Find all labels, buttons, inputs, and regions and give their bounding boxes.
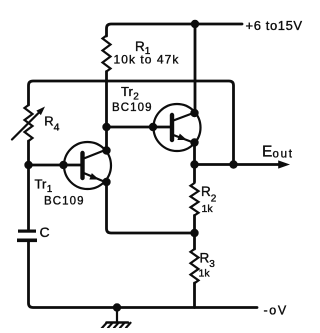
- node: Tr2 base circle junction: [149, 123, 157, 131]
- node: ground junction: [113, 303, 121, 311]
- svg-text:R2: R2: [201, 184, 217, 205]
- wire: Tr1 collector to Tr2 base: [107, 126, 173, 129]
- ground: [102, 308, 131, 329]
- node: Tr1 base circle junction: [59, 161, 67, 169]
- node: Tr1 base junction: [24, 161, 32, 169]
- resistor R3: [191, 249, 199, 283]
- svg-text:BC109: BC109: [44, 196, 85, 208]
- resistor R1: [103, 36, 111, 72]
- wire: R3 to 0V rail: [193, 283, 196, 308]
- svg-text:Tr1: Tr1: [35, 177, 53, 196]
- wire: Tr1 emitter to divider junction: [107, 182, 195, 233]
- node: Tr1 emitter: [102, 178, 110, 186]
- svg-text:R4: R4: [44, 114, 59, 134]
- wire: Tr1 base: [29, 164, 83, 167]
- wire: +V top rail: [107, 24, 243, 36]
- node: output junction: [190, 160, 198, 168]
- variable resistor R4: [25, 105, 33, 141]
- capacitor C: [17, 230, 37, 243]
- wire: Tr2 emitter down to R2: [193, 143, 196, 183]
- resistor R2: [191, 183, 199, 215]
- svg-text:BC109: BC109: [112, 102, 153, 114]
- wire: R2 to R3: [193, 215, 196, 249]
- svg-text:-oV: -oV: [264, 304, 288, 318]
- node: Tr2 base junction: [102, 123, 110, 131]
- wire: capacitor to 0V rail and bottom rail: [29, 242, 258, 308]
- output arrow: [278, 160, 290, 168]
- transistor Q2 Tr2: [154, 104, 201, 151]
- wire: R1 bottom to Tr1 collector: [105, 72, 108, 151]
- svg-text:C: C: [40, 224, 50, 240]
- svg-text:1k: 1k: [199, 268, 211, 280]
- wire: Tr1 base junction to capacitor: [27, 165, 30, 229]
- svg-text:out: out: [273, 149, 294, 161]
- svg-text:1k: 1k: [202, 203, 214, 215]
- wire: output line: [195, 163, 279, 166]
- svg-text:+6 to15V: +6 to15V: [246, 18, 303, 33]
- wire: feedback from output line to R4: [29, 81, 234, 165]
- node: Tr2 emitter: [190, 138, 198, 146]
- wire: +V rail to Tr2 collector: [194, 24, 197, 113]
- R4 arrow: [12, 111, 41, 140]
- svg-text:E: E: [262, 144, 272, 161]
- node: Tr2 collector: [190, 109, 198, 117]
- node: +V rail junction: [191, 20, 199, 28]
- svg-text:10k to 47k: 10k to 47k: [114, 53, 180, 67]
- node: Tr1 collector: [102, 146, 110, 154]
- svg-text:Tr2: Tr2: [121, 84, 139, 103]
- node: feedback tap junction: [229, 160, 237, 168]
- transistor Q1 Tr1: [64, 142, 111, 189]
- wire: R4 to Tr1 base junction: [27, 141, 30, 165]
- node: R2 R3 junction: [190, 229, 198, 237]
